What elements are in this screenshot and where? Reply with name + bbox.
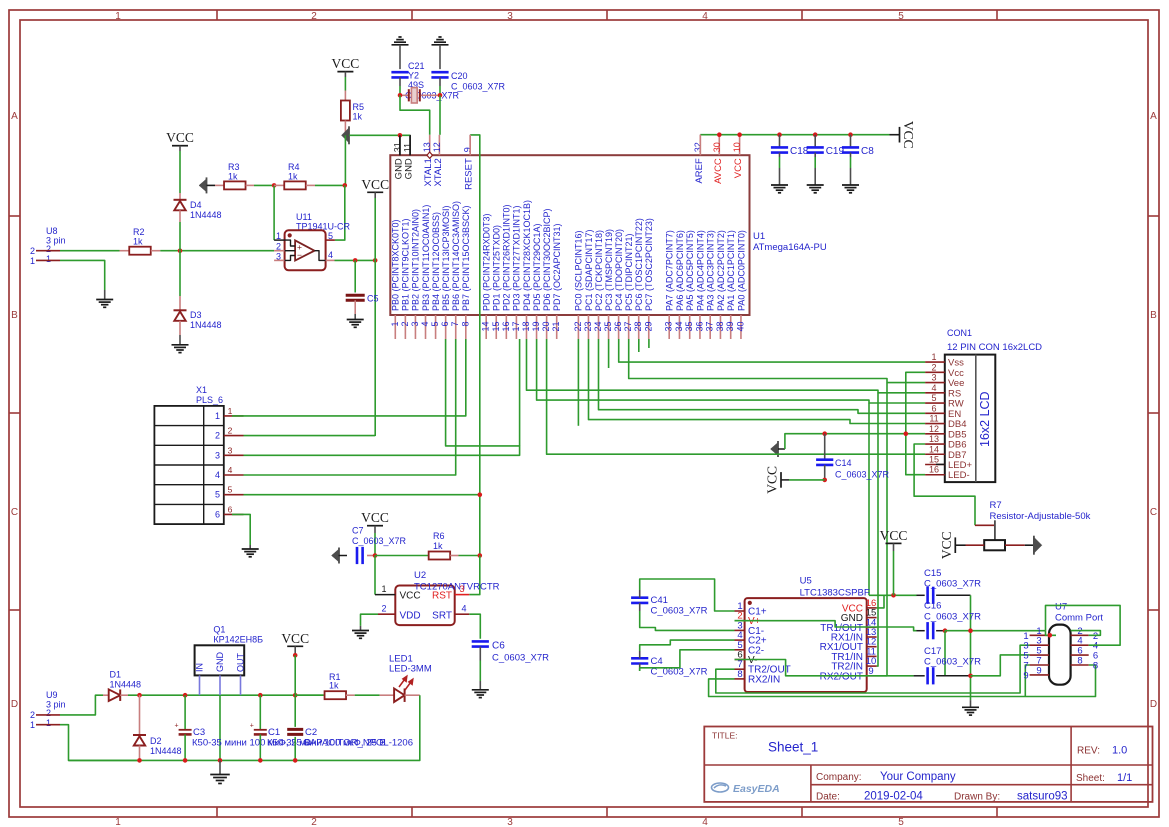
svg-text:+: + [250,723,254,730]
svg-text:PB0 (PCINT8XCK0T0): PB0 (PCINT8XCK0T0) [391,219,401,311]
ic U5 pin 1 [735,610,745,612]
junction crystal left [398,93,403,98]
svg-text:8: 8 [737,669,742,680]
svg-text:9: 9 [1036,665,1041,676]
junction C7 VCC node [373,553,378,558]
op-amp U11 triangle [295,240,314,260]
ic U5 pin 7 [735,668,745,670]
svg-text:C1: C1 [268,727,280,738]
svg-text:C16: C16 [924,601,941,612]
wire DB5 row [785,434,925,449]
netflag arrow at R5 bottom [342,128,350,143]
svg-text:19: 19 [531,322,541,332]
svg-text:LED-: LED- [948,470,970,481]
capacitor C4 [631,657,648,660]
svg-text:TC1270ANTVRCTR: TC1270ANTVRCTR [414,582,500,593]
svg-text:2: 2 [30,710,35,720]
svg-text:PA4 (ADC4PCINT4): PA4 (ADC4PCINT4) [695,230,705,311]
ic U5 body [745,598,867,692]
diode D2 1N4448 [139,695,141,735]
wire C16 row to U7 [945,630,1046,632]
svg-text:1: 1 [115,11,121,22]
svg-text:1: 1 [46,718,51,728]
led LED1 [394,688,405,702]
junction rail GND [218,758,223,763]
junction R4/R5 node [343,183,348,188]
capacitor C20 [431,71,448,74]
svg-text:D: D [1150,699,1157,710]
ic U5 pin 6 [735,659,745,661]
op-amp U11 pin1 [274,239,285,241]
svg-text:D3: D3 [190,310,202,320]
diode D1 1N4448 [109,689,121,701]
ground below C6 [472,689,489,691]
ground bottom rail [219,760,221,774]
netflag VCC left of R7 [954,537,956,553]
svg-text:3: 3 [507,11,513,22]
connector CON1 pin 15 LED+ [925,464,945,466]
ground below C15 column [962,706,979,708]
wire X1 pin3 bridge to PB5 [244,339,520,455]
capacitor C1 polarized [259,695,261,729]
wire C17 row to U7 pin5 [971,655,1030,676]
svg-text:PB6 (PCINT14OC3AMISO): PB6 (PCINT14OC3AMISO) [451,201,461,311]
junction rail C2 [293,758,298,763]
ic Q1 body [195,645,245,675]
svg-text:6: 6 [228,504,233,514]
svg-text:VCC: VCC [281,631,309,646]
svg-text:C21: C21 [408,61,425,71]
connector CON1 pin 4 RS [925,392,945,394]
wire R5 bottom to GND pins [349,134,410,136]
connector CON1 body [945,355,996,483]
svg-text:LED-3MM: LED-3MM [389,664,432,675]
wire PC5 to CON1 Vee [629,339,925,383]
stub PC6 [638,339,640,352]
svg-text:1N4448: 1N4448 [110,680,142,690]
svg-text:PC6 (TOSC1PCINT22): PC6 (TOSC1PCINT22) [634,218,644,311]
ground above C21 [392,44,409,46]
stub PC3 [608,339,610,368]
connector CON1 pin 6 EN [925,412,945,414]
svg-text:PD0 (PCINT24RXD0T3): PD0 (PCINT24RXD0T3) [482,213,492,311]
wire crystal right to XTAL2 [439,95,441,135]
svg-text:12 PIN CON 16x2LCD: 12 PIN CON 16x2LCD [947,342,1042,353]
svg-text:5: 5 [898,11,904,22]
junction C16 row ground column [968,628,973,633]
ground below C18 [771,184,788,186]
wire op-amp output [335,259,376,261]
svg-text:AREF: AREF [694,158,705,184]
wire PC1 to CON1 DB4 [589,339,926,424]
svg-text:3: 3 [931,373,936,383]
resistor R3 [215,184,224,186]
svg-text:2: 2 [46,708,51,718]
ground below C5 [347,319,364,321]
wire U5 pin16 VCC [877,595,884,608]
ground X1 pin6 [242,548,259,550]
connector U7 pin 2 [1071,634,1089,636]
wire R3 to junction [254,184,274,186]
svg-text:3: 3 [410,322,420,327]
svg-text:C6: C6 [492,641,505,652]
svg-text:satsuro93: satsuro93 [1017,791,1068,803]
svg-text:PD1 (PCINT25TXD0): PD1 (PCINT25TXD0) [492,225,502,311]
wire R7 right to gnd arrow [1005,544,1025,546]
wire Q1 GND to bottom rail [219,695,221,760]
wire U5 V+ crossing to pin14 row [735,621,917,631]
svg-text:2: 2 [276,242,281,252]
easyeda logo [712,783,780,795]
svg-text:Date:: Date: [816,792,840,803]
svg-text:29: 29 [643,322,653,332]
svg-text:VCC: VCC [765,466,780,494]
svg-text:14: 14 [929,444,939,454]
svg-text:PC0 (SCLPCINT16): PC0 (SCLPCINT16) [574,230,584,311]
ic U5 pin 9 [867,675,877,677]
wire C20 to crystal [439,77,441,86]
svg-text:1N4448: 1N4448 [150,746,182,756]
svg-text:EasyEDA: EasyEDA [733,783,780,795]
svg-text:C8: C8 [861,146,874,157]
svg-text:C7: C7 [352,526,364,536]
ic U5 pin 15 [867,617,877,619]
wire junction down to op-amp pin5 [335,185,345,240]
wire U8 pin1 to ground [60,260,105,290]
svg-text:RX2/IN: RX2/IN [748,674,780,685]
svg-text:13: 13 [929,434,939,444]
junction DB5 column [904,431,909,436]
svg-text:XTAL2: XTAL2 [433,158,444,186]
ic U5 pin 12 [867,646,877,648]
svg-text:R4: R4 [288,162,300,172]
svg-text:28: 28 [633,322,643,332]
wire RW branch down to C15 rail [868,403,870,595]
svg-text:VCC: VCC [733,158,744,178]
ic U5 pin 3 [735,629,745,631]
svg-text:PC3 (TMSPCINT19): PC3 (TMSPCINT19) [604,229,614,311]
connector CON1 pin 5 RW [925,402,945,404]
junction rail D2 [137,758,142,763]
junction crystal right [438,93,443,98]
svg-text:C_0603_X7R: C_0603_X7R [451,82,506,92]
svg-text:D4: D4 [190,200,202,210]
svg-text:RX2/OUT: RX2/OUT [820,671,863,682]
svg-text:30: 30 [712,142,722,152]
svg-text:6: 6 [931,403,936,413]
svg-text:+: + [175,723,179,730]
svg-text:5: 5 [228,485,233,495]
ic U5 marker dot [748,601,752,605]
svg-text:PA0 (ADC0PCINT0): PA0 (ADC0PCINT0) [736,230,746,311]
svg-text:R7: R7 [990,500,1002,511]
connector CON1 pin 16 LED- [925,474,945,476]
wire PC4 to CON1 Vss [619,339,925,362]
ic U5 pin 8 [735,678,745,680]
svg-text:25: 25 [603,322,613,332]
connector CON1 pin 3 Vee [925,382,945,384]
svg-text:КР142ЕН8Б: КР142ЕН8Б [213,635,263,645]
svg-text:C14: C14 [835,458,852,468]
svg-text:1k: 1k [353,112,363,122]
wire junction down to op-amp pin1 [273,185,275,240]
junction C16 out [943,628,948,633]
svg-text:10: 10 [732,142,742,152]
svg-text:VCC: VCC [166,130,194,145]
wire RESET riser [470,135,480,556]
ic U1 ATmega164A-PU body [390,155,749,315]
svg-text:11: 11 [403,143,413,152]
wire crystal left to XTAL1 [400,95,430,135]
svg-text:1k: 1k [288,172,298,182]
svg-text:20: 20 [541,322,551,332]
wire C4 top to U5 pin4 [640,640,735,651]
svg-text:1: 1 [30,256,35,266]
svg-text:C4: C4 [651,656,663,667]
svg-text:4: 4 [420,322,430,327]
svg-text:VDD: VDD [400,610,421,621]
junction VCC pin [737,132,742,137]
svg-text:39: 39 [725,322,735,332]
resistor R2 [129,247,151,255]
svg-text:3: 3 [215,450,220,460]
connector CON1 pin 12 DB5 [925,433,945,435]
svg-text:1: 1 [228,406,233,416]
svg-text:PB7 (PCINT15OC3BSCK): PB7 (PCINT15OC3BSCK) [461,205,471,311]
svg-text:4: 4 [215,470,220,480]
ic U5 pin 14 [867,626,877,628]
junction above C8 [848,132,853,137]
netflag arrow DB5 row [771,443,779,456]
svg-text:R6: R6 [433,531,445,541]
svg-text:PB2 (PCINT10INT2AIN0): PB2 (PCINT10INT2AIN0) [411,209,421,311]
ic U5 pin 5 [735,649,745,651]
svg-text:PB1 (PCINT9CLKOT1): PB1 (PCINT9CLKOT1) [401,218,411,311]
svg-text:Company:: Company: [816,772,862,783]
wire D1 to main row [128,694,324,696]
svg-text:1: 1 [381,584,386,594]
svg-text:U1: U1 [753,231,765,242]
wire D4 to R2 node [179,222,181,251]
wire U9 pin2 to D1 [60,695,103,715]
wire C21 to crystal [399,77,401,86]
svg-text:1: 1 [931,352,936,362]
netflag VCC right end [890,134,900,136]
svg-text:ATmega164A-PU: ATmega164A-PU [753,242,827,253]
svg-text:1: 1 [115,817,121,827]
svg-text:PC5 (TDIPCINT21): PC5 (TDIPCINT21) [624,233,634,311]
junction rail C3 [183,758,188,763]
ic U5 pin 10 [867,665,877,667]
wire Vee branch down to U5 pin9 [877,383,887,676]
svg-text:PD7 (OC2APCINT31): PD7 (OC2APCINT31) [552,223,562,311]
svg-text:C_0603_X7R: C_0603_X7R [924,657,981,668]
svg-text:16x2 LCD: 16x2 LCD [978,391,992,447]
wire U5 RX2/IN loop to U7 pins7-8 [709,665,1096,697]
svg-text:C5: C5 [367,294,379,304]
svg-text:C20: C20 [451,71,468,81]
svg-text:1k: 1k [329,681,339,691]
svg-text:VCC: VCC [361,177,389,192]
svg-text:B: B [1150,310,1157,321]
wire LED+ stub extension [936,463,945,465]
svg-text:−: − [297,250,302,260]
connector U7 pin 3 [1030,644,1049,646]
junction above C19 [813,132,818,137]
svg-text:24: 24 [593,322,603,332]
svg-text:PD4 (PCINT28XCK1OC1B): PD4 (PCINT28XCK1OC1B) [522,200,532,311]
wire U9 pin1 to bottom rail [60,725,140,761]
svg-text:PA6 (ADC6PCINT6): PA6 (ADC6PCINT6) [675,230,685,311]
wire X1 pin2 riser [244,435,376,437]
ic U5 pin 2 [735,620,745,622]
junction at GND pin 31 [398,133,403,138]
svg-text:REV:: REV: [1077,746,1100,757]
op-amp U11 pin4 [315,251,326,261]
svg-text:VCC: VCC [400,591,421,602]
svg-text:C: C [1150,507,1157,518]
svg-text:PC2 (TCKPCINT18): PC2 (TCKPCINT18) [594,230,604,311]
svg-text:C15: C15 [924,568,941,579]
diode D4 1N4448 [174,199,187,201]
ic U2 pin1 [374,556,376,595]
svg-text:37: 37 [705,322,715,332]
svg-text:Sheet_1: Sheet_1 [768,740,818,755]
ic U1 top pins [399,135,401,155]
svg-text:18: 18 [521,322,531,332]
svg-text:6: 6 [440,322,450,327]
junction C14 top [822,431,827,436]
ic U5 pin 16 [867,607,877,609]
ground below D3 [172,344,189,346]
stub PC7 [648,339,650,348]
svg-text:A: A [11,111,18,122]
crystal Y2 symbol [400,94,409,96]
connector CON1 pin 1 Vss [925,361,945,363]
junction R2 node [178,248,183,253]
svg-text:16: 16 [501,322,511,332]
title block frame [704,727,1152,802]
svg-text:8: 8 [1093,661,1098,672]
svg-text:U11: U11 [296,212,312,222]
svg-text:PD3 (PCINT27TXD1INT1): PD3 (PCINT27TXD1INT1) [512,205,522,311]
svg-text:5: 5 [430,322,440,327]
svg-text:VCC: VCC [939,531,954,559]
capacitor C21 [391,71,408,74]
svg-text:4: 4 [702,817,708,827]
resistor R4 [274,184,284,186]
junction C14 bottom [822,478,827,483]
svg-text:2: 2 [400,322,410,327]
svg-text:SRT: SRT [432,610,452,621]
junction X1 pin5 RESET [478,492,483,497]
op-amp U11 pin5 [326,239,335,241]
svg-text:1: 1 [276,231,281,241]
capacitor C7 [356,547,359,564]
svg-text:D: D [11,699,18,710]
ic U2 pin4 SRT [455,613,470,615]
connector CON1 pin 13 DB6 [925,443,945,445]
capacitor C6 [472,640,489,643]
svg-text:PC4 (TDOPCINT20): PC4 (TDOPCINT20) [614,229,624,311]
svg-text:Drawn By:: Drawn By: [954,792,1000,803]
svg-text:C_0603_X7R: C_0603_X7R [924,612,981,623]
svg-text:22: 22 [573,322,583,332]
svg-text:3: 3 [228,445,233,455]
wire U8 pin2 to R2 [60,250,120,252]
svg-text:4: 4 [461,604,466,614]
svg-text:8: 8 [1077,656,1082,667]
resistor R7 body [984,540,1005,550]
svg-text:C19: C19 [826,146,845,157]
svg-text:U5: U5 [800,576,812,587]
resistor R1 [325,691,347,699]
svg-text:32: 32 [693,142,703,152]
junction above C18 [777,132,782,137]
svg-text:15: 15 [929,455,939,465]
connector U7 pin 7 [1030,664,1049,666]
svg-text:C_0603_X7R: C_0603_X7R [492,653,549,664]
rail C15 row [869,594,917,596]
junction rail C1 [258,758,263,763]
svg-text:C17: C17 [924,646,941,657]
svg-text:2: 2 [311,11,317,22]
svg-text:1/1: 1/1 [1117,772,1132,784]
svg-text:23: 23 [583,322,593,332]
svg-text:2: 2 [228,426,233,436]
netflag arrow left of C7 [332,549,340,562]
junction U7 pin1 [1048,633,1053,638]
svg-text:26: 26 [613,322,623,332]
svg-text:PD5 (PCINT29OC1A): PD5 (PCINT29OC1A) [532,223,542,311]
svg-text:CON1: CON1 [947,328,972,338]
svg-text:B: B [11,310,18,321]
svg-text:PA3 (ADC3PCINT3): PA3 (ADC3PCINT3) [706,230,716,311]
svg-text:12: 12 [929,424,939,434]
svg-text:Your Company: Your Company [880,771,956,783]
svg-text:VCC: VCC [361,510,389,525]
svg-text:16: 16 [929,465,939,475]
svg-text:31: 31 [392,142,402,152]
svg-text:14: 14 [481,322,491,332]
junction C1 top [258,693,263,698]
wire U5 V- crossing to C17 row [735,660,914,676]
op-amp U11 pin3 [274,259,285,261]
diode D3 1N4448 [174,309,187,311]
junction output C5 [353,258,358,263]
capacitor C19 [814,135,816,148]
svg-text:D1: D1 [110,670,122,680]
svg-text:1k: 1k [433,541,443,551]
wire C4 bottom to U5 pin5 [639,664,641,672]
junction VCC C15 rail [891,593,896,598]
connector U7 pin 5 [1030,654,1049,656]
ground above C20 [432,44,449,46]
wire C41 top to U5 pin1 [640,579,735,611]
junction AVCC [717,132,722,137]
wire C7 node to R6 [375,555,429,557]
wire X1 pin5 to RESET net [244,494,480,496]
svg-text:U9: U9 [46,690,58,700]
svg-text:1N4448: 1N4448 [190,210,222,220]
svg-text:IN: IN [195,663,205,672]
svg-text:2: 2 [30,246,35,256]
wire C15 to ground column [970,595,972,700]
capacitor C14 [824,434,826,460]
svg-text:40: 40 [735,322,745,332]
svg-text:21: 21 [551,322,561,332]
svg-text:17: 17 [511,322,521,332]
